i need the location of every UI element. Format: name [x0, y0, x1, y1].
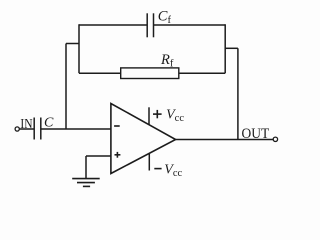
- svg-text:Cf: Cf: [158, 9, 172, 26]
- +Vcc power stub: [148, 107, 150, 125]
- wire Cf top right segment: [154, 24, 226, 26]
- resistor Rf: [121, 68, 179, 79]
- svg-text:Vcc: Vcc: [166, 108, 184, 124]
- wire Rf left segment: [79, 72, 121, 74]
- minus sign of -Vcc label: [154, 168, 161, 170]
- wire jog J2 to output branch: [225, 47, 238, 49]
- wire ground drop: [85, 156, 87, 178]
- wire Cf top left segment: [79, 24, 147, 26]
- ground: [72, 179, 100, 187]
- plus sign of +Vcc label: [153, 110, 162, 118]
- svg-text:IN: IN: [20, 116, 32, 131]
- node IN terminal: [15, 127, 19, 131]
- svg-text:Rf: Rf: [160, 52, 174, 69]
- wire jog J1: [66, 43, 79, 45]
- node OUT terminal: [273, 137, 277, 141]
- wire left vertical V2 (to inverting input): [65, 44, 67, 130]
- wire non-inverting input: [86, 155, 111, 157]
- capacitor Cf: [147, 13, 153, 37]
- wire right vertical A (Cf to Rf): [224, 24, 226, 73]
- svg-text:Vcc: Vcc: [164, 162, 182, 178]
- wire inverting input: [41, 128, 111, 130]
- wire left vertical V1 (Cf to Rf): [78, 24, 80, 73]
- wire right vertical B (to output node): [237, 48, 239, 139]
- wire IN terminal to capacitor C: [19, 128, 34, 130]
- wire Rf right segment: [179, 72, 225, 74]
- op-amp U1 triangle: [111, 104, 176, 174]
- wire output: [176, 139, 274, 141]
- svg-text:OUT: OUT: [242, 127, 270, 143]
- svg-text:C: C: [44, 116, 54, 131]
- op-amp inverting pin minus sign: [114, 125, 120, 127]
- op-amp non-inverting pin plus sign: [115, 152, 121, 158]
- -Vcc power stub: [148, 153, 150, 170]
- capacitor C: [34, 118, 41, 140]
